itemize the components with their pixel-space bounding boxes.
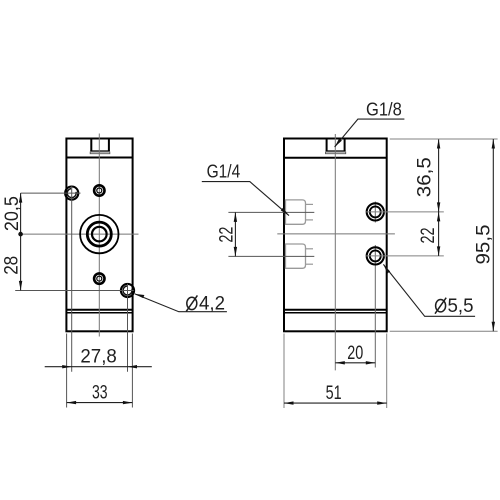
svg-text:95,5: 95,5: [473, 224, 495, 264]
front view horizontal centerline: [21, 233, 139, 235]
svg-text:G1/8: G1/8: [366, 99, 402, 120]
side view horizontal centerline: [277, 233, 395, 235]
arrow left at 27,8 right end: [128, 365, 138, 368]
circle 1 horizontal extension line: [366, 211, 444, 213]
arrow up at 95,5 top: [492, 139, 495, 149]
arrow left at 20: [335, 361, 345, 364]
dimension line 27,8: [45, 366, 152, 368]
top extension line right: [390, 138, 498, 140]
port column line upper segment: [374, 202, 376, 223]
bottom right hole horizontal centerline / extension: [15, 290, 134, 292]
diameter 5,5 leader arrow: [383, 264, 390, 273]
top left hole vertical extension line: [71, 186, 73, 372]
main bore circle inner: [92, 227, 107, 242]
svg-text:22: 22: [215, 227, 237, 243]
arrow up at 20,5 top: [19, 193, 22, 203]
dimension line 51: [284, 402, 387, 404]
arrow down at 95,5 bottom: [492, 322, 495, 332]
svg-text:28: 28: [0, 256, 22, 275]
lower fitting centerline: [228, 255, 314, 257]
diameter symbol 5,5: [435, 298, 446, 314]
node dot at centerline: [18, 232, 23, 237]
svg-text:G1/4: G1/4: [207, 160, 241, 181]
arrow down at 28 bottom: [19, 281, 22, 291]
side view bottom band line 1: [284, 309, 387, 311]
side view top divider line: [284, 157, 387, 159]
arrow up at right 22 top: [437, 212, 440, 222]
G1/4 fitting lower: [286, 244, 314, 268]
front view vertical centerline: [98, 134, 100, 337]
side view body outline: [284, 139, 387, 332]
svg-text:5,5: 5,5: [448, 295, 474, 317]
dimension line 22 left: [234, 212, 236, 256]
side view bottom band line 2: [284, 312, 387, 314]
top center pilot hole: [94, 185, 104, 195]
side view vertical centerline: [334, 134, 336, 370]
svg-text:33: 33: [92, 381, 108, 403]
svg-text:36,5: 36,5: [414, 157, 436, 197]
extension line 33 right: [131, 334, 133, 408]
diameter 4,2 leader line: [135, 294, 227, 312]
bottom right hole vertical extension line: [127, 284, 129, 372]
svg-text:20,5: 20,5: [1, 196, 23, 231]
arrow left at 51: [284, 401, 294, 404]
circle 2 horizontal extension line: [366, 255, 444, 257]
arrow right at 20: [366, 361, 376, 364]
front view top port notch: [90, 139, 110, 153]
G1/4 leader line: [202, 182, 289, 216]
diameter 5,5 leader line: [383, 264, 475, 316]
extension line 51 right: [386, 334, 388, 409]
dimension line 95,5: [492, 139, 494, 331]
side view top port notch: [326, 139, 346, 153]
svg-text:51: 51: [326, 382, 342, 404]
extension line 51 left: [283, 334, 285, 409]
arrow down at right 22 bottom: [437, 246, 440, 256]
svg-text:20: 20: [347, 342, 363, 364]
arrow down at left 22: [234, 247, 237, 257]
dimension line 20: [335, 362, 375, 364]
diameter 4,2 leader arrow: [135, 294, 145, 298]
main bore circle middle: [87, 222, 111, 246]
front view top divider line: [66, 157, 132, 159]
dimension line 36,5 and 22 right: [438, 139, 440, 256]
svg-text:22: 22: [417, 228, 439, 244]
G1/8 leader line: [335, 119, 405, 147]
svg-text:27,8: 27,8: [80, 345, 116, 367]
top left mounting hole: [65, 187, 78, 200]
bottom extension line right: [390, 330, 498, 332]
arrow up at left 22: [234, 212, 237, 222]
front view bottom band line 1: [66, 309, 132, 311]
arrow right at 51: [377, 401, 387, 404]
arrow right at 27,8 left end: [62, 365, 71, 368]
arrow up at 36,5 top: [437, 139, 440, 149]
arrow right at 33: [123, 401, 132, 404]
G1/4 fitting upper: [286, 200, 314, 224]
diameter symbol 4,2: [186, 295, 197, 311]
upper fitting centerline: [228, 211, 314, 213]
side port circle 1: [367, 203, 384, 220]
side port circle 2: [367, 247, 384, 264]
bottom right mounting hole: [121, 284, 134, 297]
front view bottom band line 2: [66, 312, 132, 314]
dimension line 33: [67, 402, 133, 404]
bottom center pilot hole: [94, 273, 104, 283]
G1/4 leader arrow: [281, 208, 289, 216]
extension line 33 left: [66, 334, 68, 408]
port column line lower segment: [374, 245, 376, 368]
dimension line 20,5 and 28: [20, 193, 22, 290]
front view body outline: [66, 139, 132, 332]
G1/8 leader arrow: [335, 138, 342, 147]
top left hole horizontal centerline / extension: [21, 192, 81, 194]
arrow down at 36,5 bottom: [437, 202, 440, 212]
arrow left at 33: [67, 401, 77, 404]
main bore circle outer: [80, 215, 118, 253]
